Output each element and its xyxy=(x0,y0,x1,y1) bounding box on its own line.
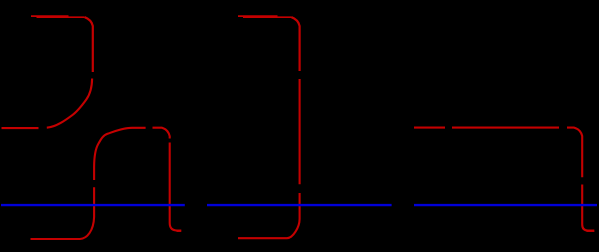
curve L upper plateau extra dash xyxy=(31,15,69,17)
curve R vertical lower dash and foot xyxy=(582,185,594,231)
curve M2 vertical middle dash xyxy=(299,79,301,184)
curve R middle plateau dash 1 xyxy=(414,127,445,129)
curve M2 top plateau lower dash xyxy=(243,16,292,18)
curve R foot end thickening xyxy=(587,230,595,232)
curve M1 vertical upper part and bend right to middle plateau xyxy=(94,128,146,180)
blue baseline dash 1 xyxy=(1,204,185,206)
blue baseline dash 3 xyxy=(414,204,597,206)
curve M1 middle plateau second dash and right corner xyxy=(153,128,170,139)
curve R plateau dash 3 with corner into vertical xyxy=(567,128,582,178)
curve L top plateau lower dash xyxy=(37,16,85,18)
curve R middle plateau dash 2 xyxy=(452,127,559,129)
curve M2 right corner into vertical xyxy=(292,17,300,71)
curve M1 bottom arm and rise into vertical xyxy=(31,187,95,239)
blue baseline dash 2 xyxy=(207,204,392,206)
curve M1 right vertical and foot xyxy=(170,143,182,231)
curve L right corner into vertical xyxy=(85,17,93,72)
curve L middle-level left arm xyxy=(2,127,39,129)
curve M2 vertical lower dash and bottom bend to bottom arm xyxy=(238,193,300,238)
curve M1 foot end thickening xyxy=(177,230,182,232)
curve L descent bend to middle level xyxy=(47,79,92,128)
curve M2 upper plateau extra dash xyxy=(238,15,278,17)
